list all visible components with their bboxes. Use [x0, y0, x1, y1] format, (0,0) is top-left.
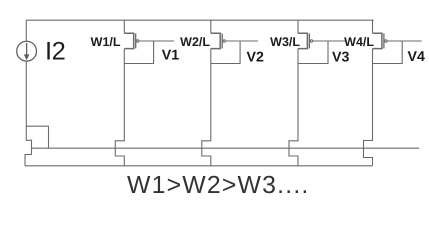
transistor M3 channel bracket	[298, 33, 307, 48]
transistor M2 drain wire	[210, 20, 212, 33]
transistor M4 drain wire	[372, 20, 374, 33]
wire M1 gate lead	[139, 40, 174, 42]
wire M2 source lead with step jog	[202, 49, 211, 166]
transistor M2 gate bubble	[223, 40, 225, 42]
wire M4 gate lead	[387, 40, 422, 42]
wire M1 source lead with step jog	[115, 49, 124, 166]
svg-text:V2: V2	[247, 49, 264, 65]
svg-text:V3: V3	[332, 50, 349, 66]
wire M4 gate-to-source loop	[373, 41, 403, 64]
transistor M4 channel bracket	[373, 33, 382, 48]
svg-text:W3/L: W3/L	[270, 35, 300, 49]
transistor M3 gate bar	[308, 33, 310, 48]
svg-text:V1: V1	[162, 48, 179, 64]
svg-text:W4/L: W4/L	[344, 35, 374, 49]
wire bottom ground rail	[25, 165, 373, 167]
transistor M3 drain wire	[297, 20, 299, 33]
wire I2 bottom lead with step jog	[25, 61, 32, 166]
transistor M3 gate bubble	[310, 40, 312, 42]
transistor M4 gate bar	[383, 33, 385, 48]
wire mid rail	[32, 147, 420, 149]
svg-text:V4: V4	[408, 49, 425, 65]
transistor M1 channel bracket	[124, 33, 133, 48]
transistor M1 gate bar	[135, 33, 137, 48]
current source I2	[17, 41, 37, 61]
transistor M1 drain wire	[123, 20, 125, 33]
svg-text:W2/L: W2/L	[180, 35, 210, 49]
svg-text:W1>W2>W3....: W1>W2>W3....	[127, 172, 310, 199]
svg-text:W1/L: W1/L	[91, 35, 121, 49]
wire M4 source lead with step jog	[364, 49, 373, 166]
wire top supply rail	[26, 19, 374, 21]
wire M2 gate-to-source loop	[211, 41, 240, 64]
wire M3 gate-to-source loop	[298, 41, 328, 64]
wire M2 gate lead	[225, 40, 258, 42]
wire M3 source lead with step jog	[289, 49, 298, 166]
wire branch from I2 lead to mid rail	[26, 126, 49, 148]
wire M3 gate lead	[313, 40, 347, 42]
wire I2 top lead	[25, 20, 27, 41]
transistor M2 gate bar	[221, 33, 223, 48]
transistor M4 gate bubble	[385, 40, 387, 42]
transistor M2 channel bracket	[211, 33, 220, 48]
wire M1 gate-to-source loop	[124, 41, 153, 64]
svg-text:I2: I2	[45, 38, 65, 66]
transistor M1 gate bubble	[137, 40, 139, 42]
